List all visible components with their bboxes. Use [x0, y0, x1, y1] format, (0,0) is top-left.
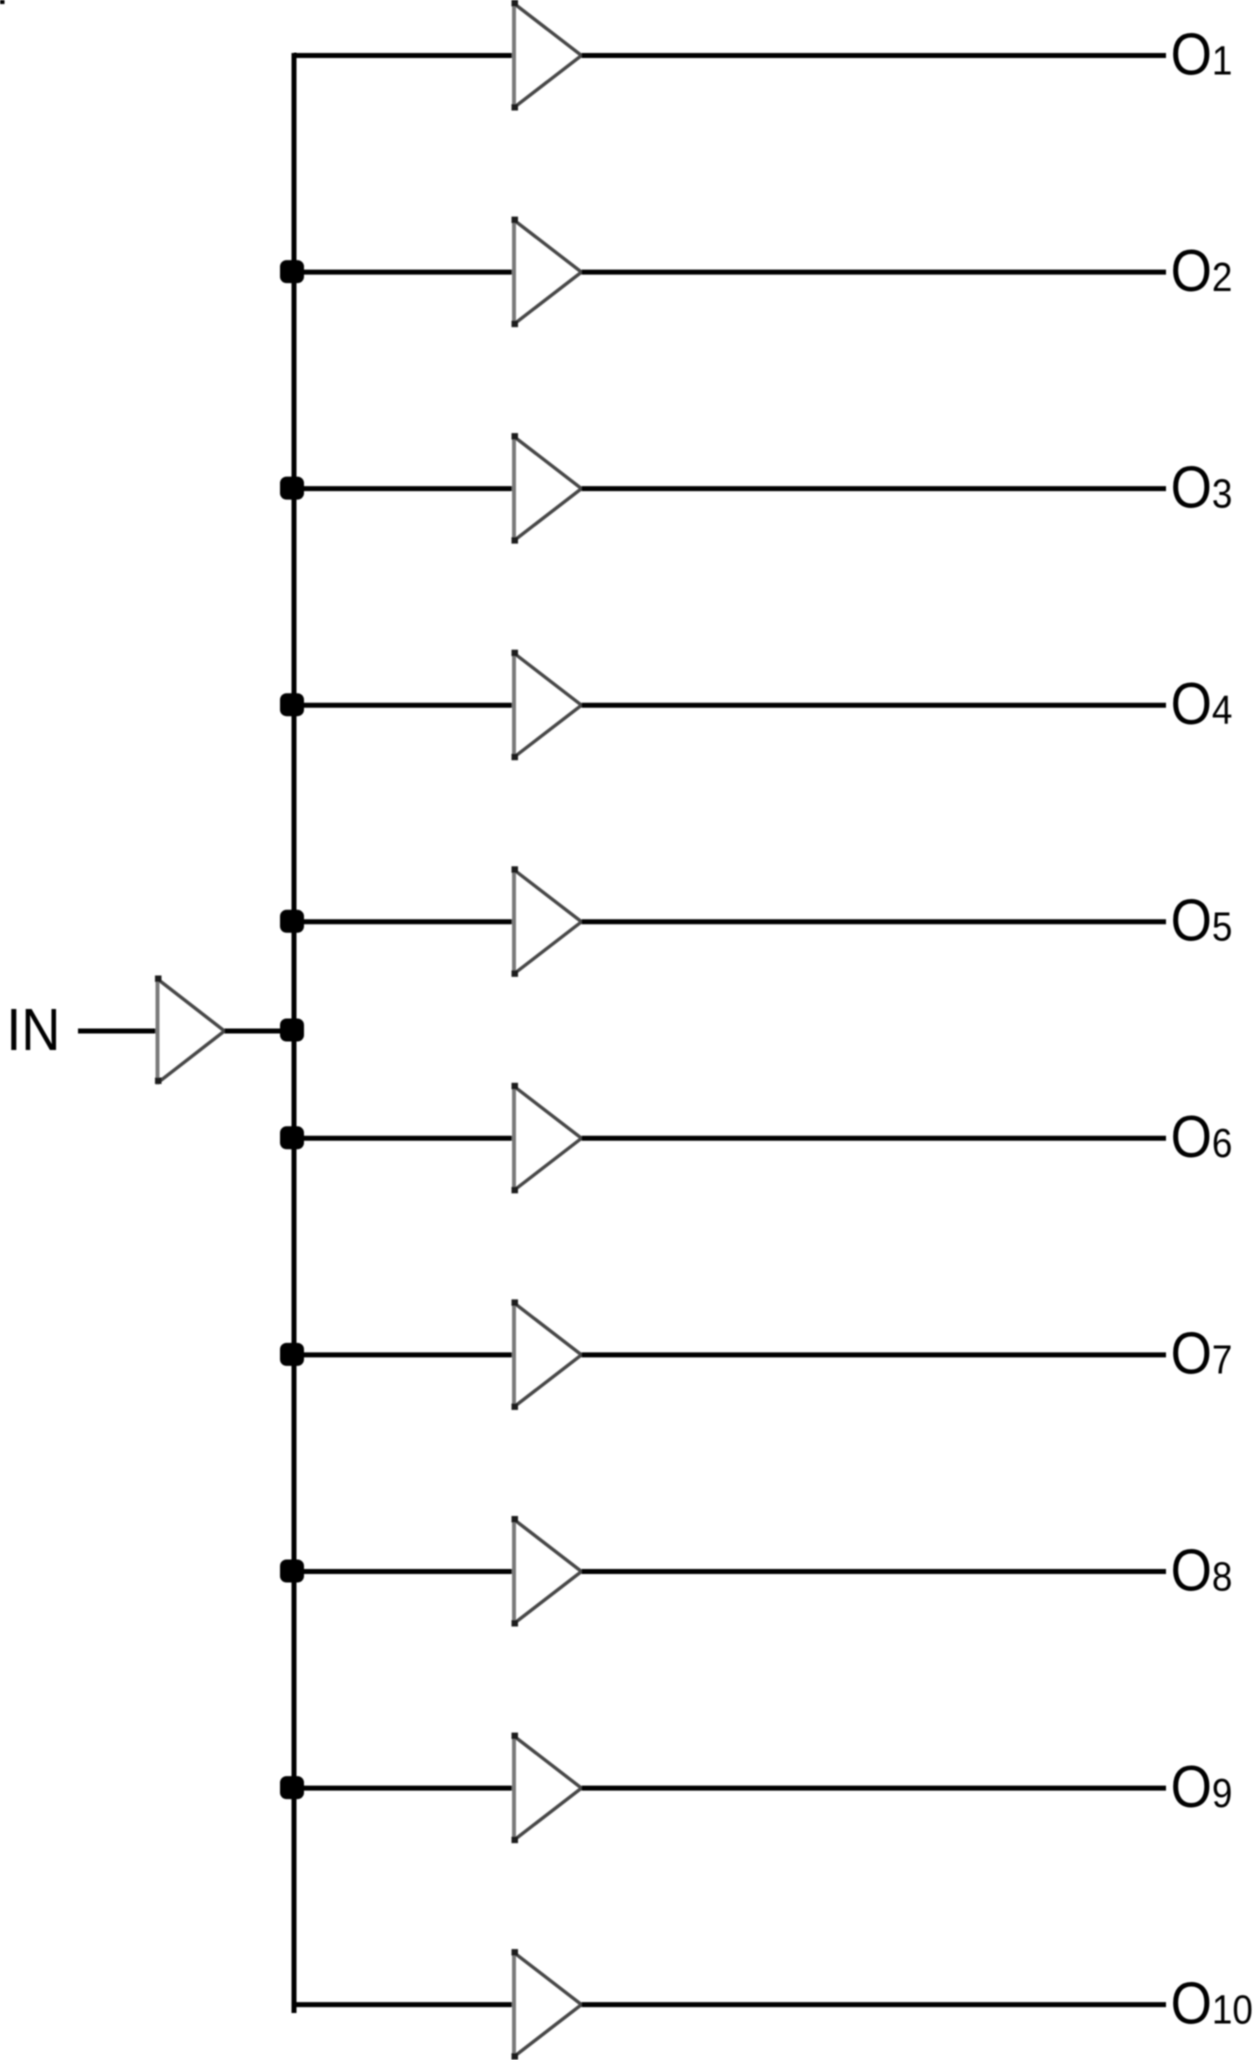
- junction dot branch O5: [280, 910, 304, 933]
- wire buffer U9 to output O9: [582, 1786, 1167, 1791]
- wire buffer U1 to output O1: [582, 53, 1167, 58]
- buffer U10: [512, 1949, 582, 2060]
- buffer U5: [512, 866, 582, 977]
- wire bus to buffer U8: [294, 1569, 515, 1574]
- wire buffer U0 output to bus: [225, 1029, 295, 1034]
- wire buffer U6 to output O6: [582, 1136, 1167, 1141]
- page corner mark (crop artifact): [0, 0, 5, 4]
- wire buffer U10 to output O10: [582, 2002, 1167, 2007]
- buffer U2: [512, 217, 582, 328]
- wire buffer U5 to output O5: [582, 919, 1167, 924]
- wire bus to buffer U1: [294, 53, 515, 58]
- wire buffer U4 to output O4: [582, 703, 1167, 708]
- bus (vertical distribution net): [292, 53, 297, 2013]
- wire IN label to buffer U0: [78, 1029, 159, 1034]
- junction dot input/bus: [280, 1019, 304, 1042]
- buffer U7: [512, 1299, 582, 1410]
- wire bus to buffer U3: [294, 486, 515, 491]
- buffer U6: [512, 1083, 582, 1194]
- buffer U4: [512, 650, 582, 761]
- junction dot branch O4: [280, 693, 304, 716]
- buffer U0 (input buffer): [155, 976, 225, 1085]
- wire buffer U7 to output O7: [582, 1352, 1167, 1357]
- buffer U9: [512, 1733, 582, 1844]
- buffer U1: [512, 0, 582, 111]
- wire buffer U2 to output O2: [582, 270, 1167, 275]
- junction dot branch O2: [280, 260, 304, 283]
- wire bus to buffer U4: [294, 703, 515, 708]
- wire bus to buffer U10: [294, 2002, 515, 2007]
- wire buffer U3 to output O3: [582, 486, 1167, 491]
- wire bus to buffer U5: [294, 919, 515, 924]
- junction dot branch O8: [280, 1560, 304, 1583]
- wire bus to buffer U9: [294, 1786, 515, 1791]
- wire bus to buffer U2: [294, 270, 515, 275]
- junction dot branch O9: [280, 1776, 304, 1799]
- junction dot branch O7: [280, 1343, 304, 1366]
- buffer U3: [512, 433, 582, 543]
- junction dot branch O6: [280, 1126, 304, 1149]
- buffer U8: [512, 1516, 582, 1627]
- wire buffer U8 to output O8: [582, 1569, 1167, 1574]
- wire bus to buffer U6: [294, 1136, 515, 1141]
- junction dot branch O3: [280, 477, 304, 500]
- wire bus to buffer U7: [294, 1352, 515, 1357]
- svg-text:IN: IN: [6, 998, 60, 1064]
